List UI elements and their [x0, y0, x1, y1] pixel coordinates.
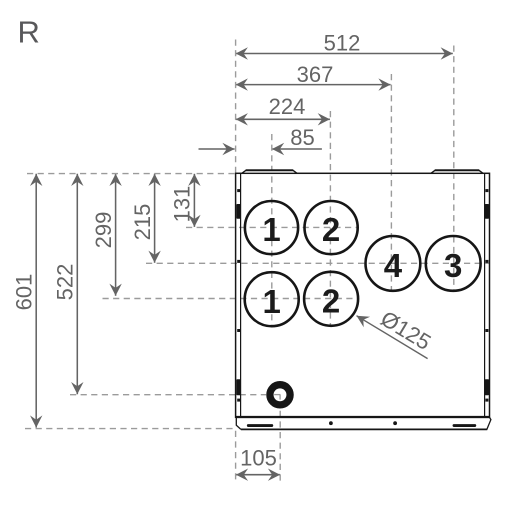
dimension 512 — [236, 53, 453, 55]
svg-text:522: 522 — [53, 264, 78, 301]
construction line: unit top horizontal — [27, 173, 235, 175]
svg-text:1: 1 — [262, 211, 280, 248]
dimension 601 — [35, 174, 37, 428]
construction line: left edge vertical (bottom) — [235, 431, 237, 484]
svg-text:2: 2 — [322, 282, 340, 319]
construction line: port row 1 centre (y=131) — [186, 226, 359, 228]
construction line: drain centre (y=522) — [70, 394, 266, 396]
construction line: port column 2 (x=224) — [329, 111, 331, 326]
svg-text:367: 367 — [297, 62, 334, 87]
construction line: port row 2 centre (y=299) — [103, 298, 359, 300]
top lid tab left — [242, 170, 297, 173]
bottom rail — [241, 428, 487, 430]
construction line: ports 4-3 centre (y=215) — [146, 262, 490, 264]
dimension 85 — [199, 148, 235, 150]
construction line: left edge vertical (top) — [235, 40, 237, 173]
left panel inner edge — [240, 173, 242, 417]
svg-text:215: 215 — [130, 204, 155, 241]
unit body fill — [236, 173, 490, 417]
construction line: port column 1 (x=85) — [271, 134, 273, 326]
port 1 (row 2) — [245, 272, 299, 326]
svg-text:601: 601 — [11, 274, 36, 311]
svg-text:512: 512 — [324, 31, 361, 56]
foot pad left — [247, 424, 273, 427]
dimension 224 — [236, 118, 330, 120]
svg-text:224: 224 — [269, 94, 306, 119]
svg-text:1: 1 — [263, 283, 281, 320]
drain centre dashes — [274, 394, 280, 396]
port 3 — [426, 236, 481, 291]
foot pad right — [453, 424, 477, 427]
svg-text:R: R — [18, 14, 40, 49]
port 2 (row 2) — [304, 272, 358, 326]
dimension 367 — [236, 84, 391, 86]
svg-text:105: 105 — [240, 446, 277, 471]
unit body outline — [236, 173, 490, 417]
svg-text:131: 131 — [170, 186, 195, 223]
dimension 299 — [115, 174, 117, 296]
dimension 522 — [76, 174, 78, 394]
rivets left edge — [237, 189, 240, 192]
construction line: port 4 column (x=367) — [390, 74, 392, 290]
latch right lower — [485, 379, 490, 395]
rail screw left — [329, 421, 333, 425]
port 4 — [366, 236, 421, 291]
top lid tab right — [431, 170, 483, 173]
svg-text:85: 85 — [290, 125, 314, 150]
drain port ring — [270, 385, 290, 405]
svg-text:3: 3 — [444, 247, 462, 284]
construction line: drain column (x=105) — [279, 411, 281, 484]
dimension 131 — [193, 174, 195, 227]
rivets right edge — [485, 189, 488, 192]
svg-text:4: 4 — [384, 247, 403, 284]
dimension 105 — [236, 474, 280, 476]
latch left upper — [236, 204, 241, 219]
construction line: unit bottom (y=601) — [25, 428, 236, 430]
svg-text:299: 299 — [91, 212, 116, 249]
construction line: port 3 column (x=512) — [453, 46, 455, 291]
port 2 (row 1) — [305, 201, 358, 254]
unit bottom edge (thick) — [236, 416, 490, 418]
right panel inner edge — [484, 173, 486, 417]
latch left lower — [236, 379, 241, 395]
port 1 (row 1) — [245, 201, 298, 254]
latch right upper — [485, 204, 490, 219]
svg-text:2: 2 — [322, 211, 340, 248]
dimension 215 — [154, 174, 156, 263]
rail screw right — [393, 421, 397, 425]
leader line Ø125 — [357, 316, 428, 359]
